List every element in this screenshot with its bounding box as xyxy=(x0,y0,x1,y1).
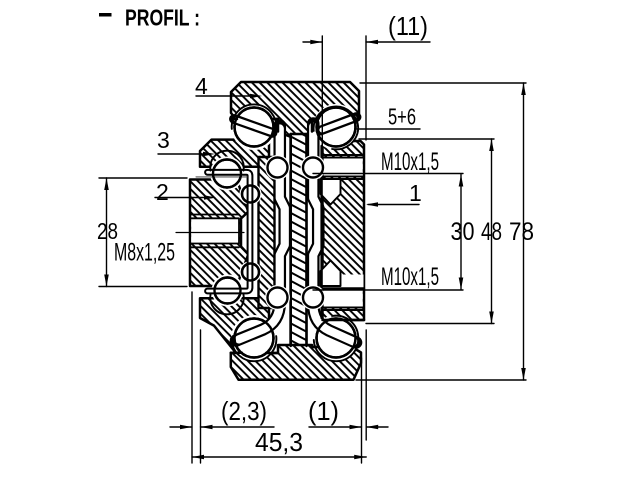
arrow leader 3 xyxy=(203,152,215,157)
rail right one-piece xyxy=(313,124,356,343)
pocket arc BL ball in bottom plate xyxy=(232,336,277,361)
rail sheet edge line xyxy=(196,176,247,178)
pocket arc mid top ball in part3 xyxy=(210,151,244,171)
dim 45,3 xyxy=(192,456,366,458)
leader 1 xyxy=(368,204,419,206)
spacer column parts 5+6 xyxy=(259,157,275,308)
svg-text:(1): (1) xyxy=(308,396,339,426)
hook band top-right xyxy=(321,117,357,131)
part 1 lower slot xyxy=(324,289,363,308)
arrow 78 top xyxy=(521,83,526,95)
top plate part 4 body xyxy=(231,82,359,137)
extension x200.5 xyxy=(200,330,202,463)
leader 3 xyxy=(158,153,210,155)
svg-text:48: 48 xyxy=(481,218,502,246)
leader 4 xyxy=(196,95,258,97)
ball outlines redraw xyxy=(213,108,356,358)
extension x361.5 xyxy=(361,358,363,463)
arrow 11 right xyxy=(366,40,378,45)
ball web top-left xyxy=(265,155,290,180)
arrow 28 top xyxy=(104,178,109,190)
extension 48 bottom xyxy=(366,323,494,325)
part 2 thread bore M8 xyxy=(191,219,239,244)
svg-text:30: 30 xyxy=(451,218,475,246)
ball web top-right xyxy=(301,155,326,180)
arrowheads xyxy=(104,40,526,460)
arrow 28 bottom xyxy=(104,275,109,287)
pocket arc BR ball in bottom plate xyxy=(314,336,359,361)
part 2 block xyxy=(190,180,248,287)
extension 48 top xyxy=(359,138,494,140)
arrow 2,3 right xyxy=(201,425,213,430)
extension 78 top xyxy=(360,82,526,84)
svg-text:(11): (11) xyxy=(388,11,428,41)
ball web bottom-right xyxy=(301,285,326,310)
title dash xyxy=(99,13,112,17)
svg-text:(2,3): (2,3) xyxy=(221,396,267,426)
arrow 48 bottom xyxy=(489,312,494,324)
arrow 45,3 right xyxy=(354,455,366,460)
web edge redraw xyxy=(290,134,292,346)
rail left one-piece xyxy=(236,126,285,341)
svg-text:M10x1,5: M10x1,5 xyxy=(381,148,439,176)
arrow 1 left xyxy=(350,425,362,430)
arrow 45,3 left xyxy=(192,455,204,460)
bottom plate xyxy=(231,345,361,380)
arrow 30 bottom xyxy=(459,278,464,290)
leader M10 lower xyxy=(313,289,463,291)
dim 30 xyxy=(460,175,462,290)
ball big bottom-right xyxy=(313,315,359,361)
ball big bottom-left xyxy=(231,315,277,361)
redraw part1 bottom edge xyxy=(323,319,365,322)
dim 28 xyxy=(106,178,108,287)
svg-text:4: 4 xyxy=(195,73,208,99)
part 1 lower vertical hole xyxy=(321,261,341,287)
dim 78 xyxy=(523,83,525,380)
leader 5+6 xyxy=(357,128,420,130)
ball mid bottom xyxy=(212,275,244,307)
extension x366.2 xyxy=(365,330,367,440)
leader 2 xyxy=(155,197,212,199)
part 3 block xyxy=(200,140,269,167)
dimension and leader lines xyxy=(99,36,526,463)
extension line x322 xyxy=(321,36,323,155)
ball mid top xyxy=(210,157,244,191)
svg-text:2: 2 xyxy=(156,179,169,205)
pocket arc TR ball in part1 xyxy=(332,129,358,149)
arrow 48 top xyxy=(489,139,494,151)
ball pocket arcs xyxy=(210,104,358,361)
ball big top-left xyxy=(231,104,277,150)
dim line 11 xyxy=(303,41,322,43)
extension 78 bottom xyxy=(356,379,526,381)
arrow 30 top xyxy=(459,175,464,187)
ball row part2 top xyxy=(240,183,262,205)
extension 28 bottom xyxy=(99,286,187,288)
balls xyxy=(210,104,359,361)
pocket arc mid bottom ball in arm xyxy=(210,294,244,314)
svg-text:78: 78 xyxy=(509,218,534,246)
central web xyxy=(291,134,307,346)
svg-text:M10x1,5: M10x1,5 xyxy=(381,263,439,291)
part 1 lower hole band xyxy=(317,275,364,288)
extension x192 xyxy=(191,292,193,463)
extension 28 top xyxy=(99,177,187,179)
arrow 2,3 left xyxy=(180,425,192,430)
arrow 78 bottom xyxy=(521,368,526,380)
arrow leader 2 xyxy=(204,195,216,200)
dim row 2,3 and 1 xyxy=(170,426,192,428)
ball row part2 bottom xyxy=(240,261,262,283)
part 2 bore centerline xyxy=(176,232,244,234)
arrow 1 right xyxy=(366,425,378,430)
svg-text:M8x1,25: M8x1,25 xyxy=(114,239,175,267)
ball big top-right xyxy=(313,104,359,150)
hook band top-left xyxy=(234,119,273,133)
bottom left arm xyxy=(200,298,269,353)
extension line x366 top xyxy=(365,36,367,140)
web notch balls xyxy=(265,155,326,310)
arrow leader 4 xyxy=(250,94,262,99)
arrow 11 left xyxy=(310,40,322,45)
svg-text:1: 1 xyxy=(409,180,422,206)
rail wall0 around part 2 xyxy=(208,172,251,291)
svg-text:PROFIL :: PROFIL : xyxy=(125,5,200,31)
arrow leader 1 xyxy=(366,202,378,207)
svg-text:3: 3 xyxy=(157,127,170,153)
part 1 left edge redraw xyxy=(320,146,322,318)
svg-text:5+6: 5+6 xyxy=(388,104,416,130)
svg-text:45,3: 45,3 xyxy=(255,427,303,457)
pocket arc TR ball in plate xyxy=(314,106,359,130)
plate edge redraw segments xyxy=(231,119,355,353)
dim 48 xyxy=(491,139,493,324)
leader M10 upper xyxy=(313,173,463,175)
part 1 upper slot xyxy=(324,158,363,177)
part 1 upper vertical hole xyxy=(317,180,340,193)
ball web bottom-left xyxy=(265,285,290,310)
part 1 block xyxy=(323,141,365,320)
pocket arc BR ball in part1 xyxy=(332,316,358,336)
pocket arc TL ball in plate xyxy=(232,104,277,130)
